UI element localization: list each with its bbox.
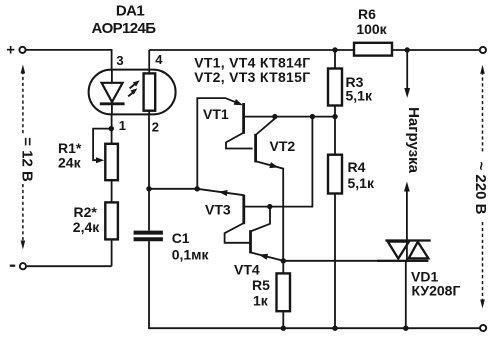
svg-text:C1: C1 xyxy=(172,230,190,246)
svg-text:VT2: VT2 xyxy=(270,138,296,154)
svg-text:4: 4 xyxy=(155,52,163,67)
svg-text:2,4к: 2,4к xyxy=(73,219,100,235)
svg-text:3: 3 xyxy=(116,53,123,68)
svg-text:2: 2 xyxy=(152,119,159,134)
svg-text:R4: R4 xyxy=(348,159,366,175)
svg-text:+: + xyxy=(6,42,15,59)
svg-text:АОР124Б: АОР124Б xyxy=(92,20,157,37)
svg-text:DA1: DA1 xyxy=(116,2,144,19)
svg-text:5,1к: 5,1к xyxy=(348,175,375,191)
svg-text:R6: R6 xyxy=(358,6,376,22)
svg-text:VT1: VT1 xyxy=(203,106,229,122)
svg-text:VT2, VT3 КТ815Г: VT2, VT3 КТ815Г xyxy=(194,69,310,85)
svg-text:КУ208Г: КУ208Г xyxy=(412,283,461,299)
svg-text:= 12 В: = 12 В xyxy=(19,137,36,182)
svg-text:R5: R5 xyxy=(252,277,270,293)
svg-text:5,1к: 5,1к xyxy=(346,88,373,104)
svg-text:VT3: VT3 xyxy=(205,202,231,218)
svg-text:Нагрузка: Нагрузка xyxy=(405,107,422,173)
svg-text:1: 1 xyxy=(119,118,126,133)
svg-text:1к: 1к xyxy=(253,293,269,309)
svg-text:100к: 100к xyxy=(356,21,387,37)
svg-text:~ 220 В: ~ 220 В xyxy=(472,162,489,215)
svg-text:24к: 24к xyxy=(58,155,82,171)
svg-text:R2*: R2* xyxy=(74,204,98,220)
svg-text:0,1мк: 0,1мк xyxy=(172,247,210,263)
svg-text:VT1, VT4 КТ814Г: VT1, VT4 КТ814Г xyxy=(194,55,310,71)
svg-text:VT4: VT4 xyxy=(234,262,260,278)
